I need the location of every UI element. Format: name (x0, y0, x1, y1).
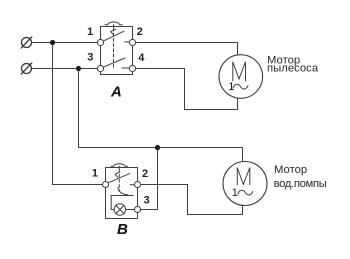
terminal X2 (bottom plug contact) (21, 63, 32, 74)
svg-text:B: B (117, 221, 128, 238)
switch A moving contact 1-2 (102, 31, 124, 42)
node c: junction dot where pin 3 riser meets motor M2 wire (155, 145, 160, 150)
lamp HL (indicator light in switch B) (114, 204, 125, 215)
switch B lamp contact bar (111, 195, 133, 197)
switch A pin 3 circle (97, 65, 103, 71)
svg-text:Мотор: Мотор (274, 164, 307, 176)
svg-text:3: 3 (87, 51, 93, 63)
wire: bar left end down to lamp HL (111, 196, 114, 210)
svg-text:пылесоса: пылесоса (267, 62, 319, 74)
switch B moving contact 1-2 (107, 174, 130, 184)
svg-text:1: 1 (228, 81, 234, 93)
node b: junction dot on bottom feed wire (76, 66, 81, 71)
switch A mechanical link (dashed) (113, 28, 115, 69)
wire: switch B pin 3 right then up to node c (140, 148, 158, 210)
svg-text:2: 2 (142, 168, 148, 180)
switch A contact spring kink (top pole) (111, 29, 116, 34)
svg-text:A: A (110, 84, 122, 101)
svg-text:2: 2 (137, 26, 143, 38)
switch A pin 4 circle (129, 65, 135, 71)
wire: node a down to switch B pin 1 (53, 43, 104, 185)
motor M1 letter M (233, 62, 246, 81)
svg-text:1: 1 (87, 26, 93, 38)
switch B pin 2 circle (135, 182, 141, 188)
switch B fixed contact of pin 2 (130, 184, 135, 186)
svg-text:4: 4 (138, 52, 145, 64)
wire: switch B pin 2 right, down, right, up to motor M2 bottom (140, 185, 243, 215)
switch A pin 2 circle (129, 39, 135, 45)
switch B body (106, 168, 138, 219)
svg-text:1: 1 (92, 168, 98, 180)
wire L1: terminal X1 to switch A pin 1 (32, 42, 99, 44)
switch A fixed contact of pin 2 (125, 41, 130, 43)
wire: node b down then right to motor M2 top (79, 69, 243, 163)
switch A fixed contact of pin 4 (122, 67, 130, 69)
switch B pin 1 circle (103, 182, 109, 188)
switch B push-button actuator (111, 164, 128, 167)
motor M2 AC wave symbol (238, 190, 253, 195)
switch A body (101, 27, 133, 75)
wire: switch A pin 2 right then down to motor M1 top (135, 43, 238, 56)
wire: switch A pin 4 right, down, right, up to motor M1 bottom (135, 69, 238, 110)
svg-text:1: 1 (232, 187, 238, 199)
node a: junction dot on top feed wire (50, 40, 55, 45)
switch A push-button actuator (105, 22, 122, 25)
motor M2 letter M (237, 168, 250, 185)
motor M1 (vacuum cleaner motor) circle (219, 55, 263, 99)
wire: lamp HL to switch B pin 3 (126, 209, 135, 211)
switch B mechanical link (dashed) (118, 169, 120, 192)
switch B lamp contact curve (118, 187, 128, 195)
terminal X1 (top plug contact) (21, 37, 32, 48)
switch A moving contact 3-4 (102, 58, 125, 68)
svg-text:вод.помпы: вод.помпы (274, 178, 327, 190)
motor M2 (water pump motor) circle (223, 162, 267, 206)
wire N1: terminal X2 to switch A pin 3 (32, 68, 99, 70)
motor M1 AC wave symbol (233, 84, 248, 89)
switch B contact spring kink (115, 172, 120, 178)
switch A pin 1 circle (97, 39, 103, 45)
svg-text:3: 3 (144, 195, 150, 207)
switch B pin 3 circle (135, 207, 141, 213)
